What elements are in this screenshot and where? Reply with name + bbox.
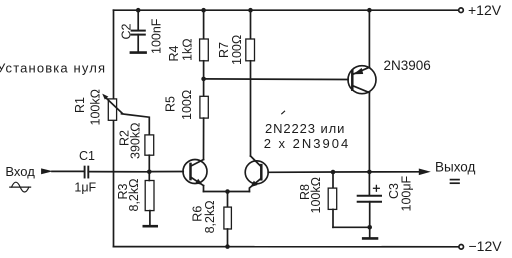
AC sine symbol — [10, 182, 31, 192]
wire U3 emitter to +12V rail — [368, 10, 370, 67]
node R7 top rail dot — [248, 8, 253, 13]
terminal -12V open circle — [459, 245, 464, 250]
resistor R8 — [328, 188, 337, 209]
resistor R2 — [145, 135, 154, 155]
C3 plus sign — [374, 185, 380, 191]
svg-text:R4: R4 — [167, 45, 181, 61]
node R8 junction dot — [331, 170, 336, 175]
svg-text:2N2223 или: 2N2223 или — [265, 121, 345, 136]
transistor U3 2N3906 — [348, 66, 376, 94]
wire output node across — [333, 171, 369, 173]
svg-text:Вход: Вход — [5, 164, 35, 179]
svg-text:100kΩ: 100kΩ — [89, 89, 103, 125]
resistor R6 — [224, 207, 232, 229]
node U3 emitter top rail dot — [367, 8, 372, 13]
transistor Q2 (right of pair, mirrored) — [245, 156, 268, 192]
svg-text:2 x 2N3904: 2 x 2N3904 — [264, 136, 351, 151]
ground bar under C3 — [363, 237, 377, 240]
DC symbol = — [451, 180, 460, 184]
node C2 top rail dot — [136, 8, 141, 13]
svg-text:Установка нуля: Установка нуля — [0, 61, 106, 76]
stray tick mark — [282, 111, 285, 114]
capacitor C2 — [132, 31, 145, 35]
wire left edge upper (top rail to R1) — [113, 10, 115, 99]
node R4/R5/base junction dot — [201, 77, 206, 82]
svg-text:8,2kΩ: 8,2kΩ — [127, 179, 141, 212]
wire input node to Q1 base — [149, 171, 183, 173]
resistor R3 — [145, 181, 154, 211]
wire R3 top lead — [148, 172, 150, 181]
wire C3 bottom lead — [369, 202, 371, 238]
wire input arrow to C1 — [52, 170, 84, 172]
wire R6 top lead — [227, 192, 229, 208]
wire output node to arrow — [369, 171, 419, 173]
wire shared emitter line — [204, 191, 250, 193]
wire R1 wiper to R2 top — [122, 114, 150, 135]
wire R4 bottom lead — [203, 61, 205, 79]
output arrow — [419, 169, 431, 176]
node emitter junction dot — [225, 189, 230, 194]
wire R8 top lead — [332, 172, 334, 188]
wire C2 bottom lead — [137, 35, 139, 52]
wire U3 collector down to output node — [368, 93, 370, 172]
wire Q2 base to output node — [268, 171, 333, 173]
wire base of U3 (from R4/R5 node to 2N3906) — [204, 78, 349, 81]
node R4 top rail dot — [201, 8, 206, 13]
svg-text:100kΩ: 100kΩ — [309, 177, 323, 213]
svg-text:8,2kΩ: 8,2kΩ — [203, 200, 217, 233]
svg-text:R5: R5 — [164, 96, 178, 112]
svg-text:+12V: +12V — [468, 2, 502, 18]
wire Q1 emitter down — [203, 186, 205, 192]
ground bar under C2 — [131, 51, 146, 54]
node R6 bottom rail dot — [225, 244, 230, 249]
potentiometer R1 — [102, 94, 122, 121]
node U3 collector output dot — [367, 170, 372, 175]
ground bar under R3 — [144, 225, 157, 228]
wire R7 top lead — [250, 10, 252, 39]
wire R4 top lead — [203, 10, 205, 39]
resistor R5 — [200, 96, 208, 118]
svg-text:1μF: 1μF — [74, 180, 96, 194]
svg-text:100Ω: 100Ω — [180, 90, 194, 120]
svg-text:Выход: Выход — [435, 160, 476, 175]
capacitor C1 — [85, 167, 89, 178]
node R8/C3 junction dot — [367, 225, 372, 230]
wire R5 top lead — [203, 79, 205, 96]
wire C2 top lead — [137, 10, 139, 30]
wire C3 top lead — [368, 172, 370, 195]
svg-text:R7: R7 — [217, 42, 231, 58]
svg-text:C1: C1 — [79, 149, 95, 163]
wire R2 bottom to input node — [148, 155, 150, 172]
wire R8 bottom to C3 node — [333, 226, 370, 228]
wire R7 bottom lead to Q2 collector (crosses base wire, no dot) — [250, 61, 252, 156]
wire bottom -12V rail — [114, 246, 459, 248]
wire R5 bottom lead to Q1 collector — [203, 118, 205, 159]
svg-text:100μF: 100μF — [400, 175, 414, 211]
wire C1 to input node (crosses left edge, no dot) — [88, 171, 149, 173]
wire top +12V rail — [114, 9, 459, 11]
wire R3 bottom lead — [149, 211, 151, 225]
svg-text:−12V: −12V — [469, 238, 503, 254]
terminal +12V open circle — [459, 8, 464, 13]
svg-text:C2: C2 — [120, 23, 134, 39]
transistor Q1 (left of pair) — [183, 160, 207, 186]
svg-text:2N3906: 2N3906 — [384, 58, 431, 73]
resistor R4 — [200, 39, 209, 61]
node input junction dot — [147, 170, 152, 175]
svg-text:100Ω: 100Ω — [230, 35, 244, 65]
input arrow — [41, 168, 53, 174]
resistor R7 — [246, 39, 255, 61]
svg-text:390kΩ: 390kΩ — [129, 123, 143, 159]
svg-text:1kΩ: 1kΩ — [180, 38, 194, 61]
capacitor C3 electrolytic — [358, 196, 381, 202]
svg-text:R1: R1 — [73, 97, 87, 113]
svg-text:100nF: 100nF — [150, 18, 164, 54]
wire R8 bottom lead — [332, 209, 334, 227]
wire left edge lower (R1 to bottom rail) — [113, 120, 115, 246]
wire R6 bottom lead — [227, 229, 229, 247]
